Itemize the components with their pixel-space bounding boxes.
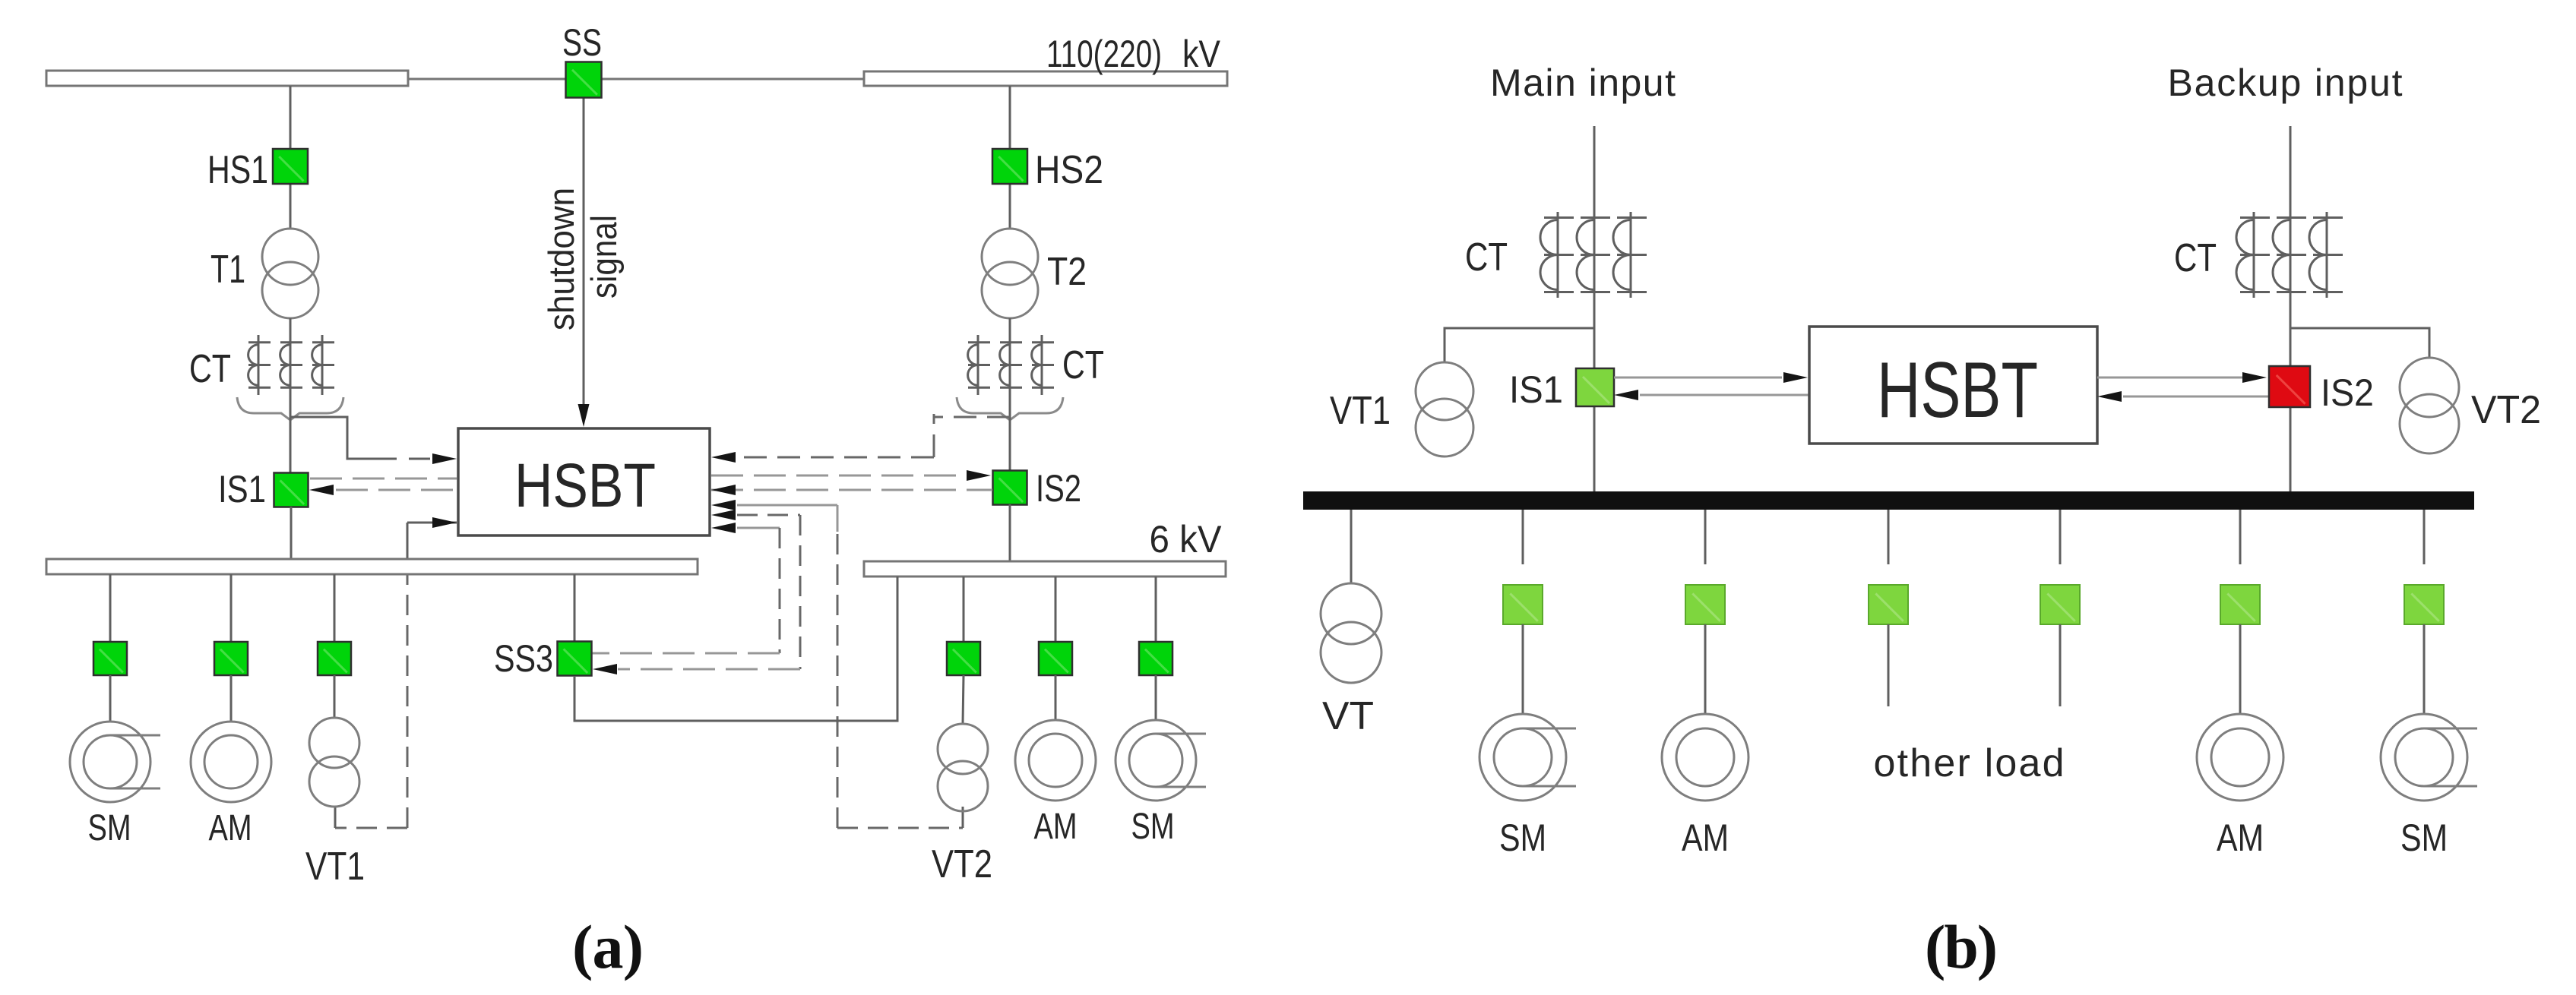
svg-text:IS2: IS2	[1036, 467, 1081, 510]
svg-text:VT: VT	[1322, 694, 1374, 738]
svg-text:VT2: VT2	[2471, 388, 2541, 432]
svg-text:HSBT: HSBT	[1877, 346, 2038, 434]
svg-text:6 kV: 6 kV	[1150, 518, 1223, 561]
svg-text:AM: AM	[1034, 807, 1078, 847]
svg-text:IS1: IS1	[1509, 368, 1563, 411]
svg-text:110(220): 110(220)	[1046, 33, 1162, 75]
svg-text:SM: SM	[2400, 817, 2448, 859]
svg-text:signal: signal	[584, 215, 624, 298]
svg-text:(b): (b)	[1925, 912, 1998, 981]
svg-text:CT: CT	[189, 347, 231, 391]
svg-text:T2: T2	[1047, 250, 1087, 294]
svg-text:AM: AM	[2217, 817, 2264, 859]
svg-text:IS1: IS1	[218, 468, 266, 510]
svg-text:Main input: Main input	[1490, 62, 1676, 104]
svg-text:VT1: VT1	[1330, 389, 1391, 433]
svg-text:IS2: IS2	[2321, 371, 2374, 414]
svg-text:SM: SM	[88, 808, 131, 848]
svg-text:kV: kV	[1182, 33, 1221, 75]
svg-text:SM: SM	[1499, 817, 1546, 859]
svg-text:SS3: SS3	[494, 637, 553, 680]
svg-text:SS: SS	[562, 21, 602, 64]
svg-text:other load: other load	[1874, 741, 2065, 785]
svg-text:VT2: VT2	[932, 842, 992, 886]
svg-text:HS1: HS1	[207, 148, 268, 192]
svg-text:HSBT: HSBT	[514, 451, 656, 520]
svg-text:T1: T1	[210, 248, 245, 292]
svg-text:(a): (a)	[572, 912, 644, 981]
svg-text:SM: SM	[1131, 807, 1175, 847]
svg-text:VT1: VT1	[305, 845, 365, 889]
svg-text:shutdown: shutdown	[541, 188, 581, 330]
svg-text:Backup input: Backup input	[2168, 62, 2403, 104]
svg-text:CT: CT	[2174, 236, 2217, 280]
svg-text:CT: CT	[1465, 235, 1508, 280]
svg-text:AM: AM	[1682, 817, 1729, 859]
svg-text:CT: CT	[1062, 343, 1104, 387]
svg-text:HS2: HS2	[1035, 148, 1103, 192]
svg-text:AM: AM	[209, 808, 252, 848]
